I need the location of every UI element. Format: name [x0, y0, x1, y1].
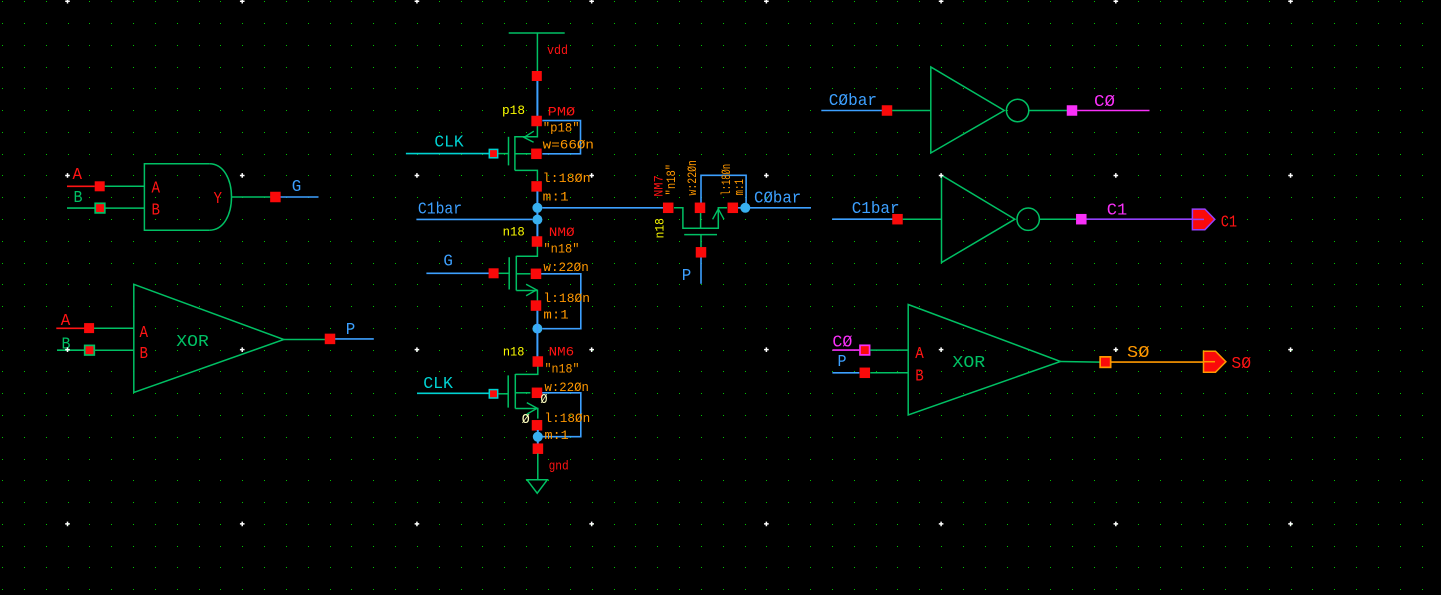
svg-text:p18: p18 — [502, 103, 525, 118]
svg-text:CLK: CLK — [423, 375, 454, 394]
svg-text:gnd: gnd — [549, 458, 569, 473]
svg-text:"n18": "n18" — [664, 164, 679, 196]
svg-text:w=66Øn: w=66Øn — [543, 138, 594, 153]
svg-text:m:1: m:1 — [543, 308, 569, 323]
svg-text:B: B — [140, 345, 149, 364]
svg-text:n18: n18 — [503, 344, 525, 359]
svg-text:P: P — [838, 353, 847, 372]
svg-text:B: B — [74, 189, 83, 208]
svg-text:B: B — [152, 201, 161, 220]
svg-text:CLK: CLK — [434, 134, 464, 153]
svg-text:"p18": "p18" — [543, 120, 580, 135]
svg-text:A: A — [140, 324, 149, 343]
svg-text:"n18": "n18" — [545, 362, 580, 377]
svg-text:SØ: SØ — [1127, 344, 1149, 363]
svg-text:A: A — [152, 180, 161, 199]
svg-text:A: A — [61, 312, 71, 331]
svg-text:A: A — [915, 345, 924, 364]
svg-text:G: G — [443, 252, 453, 271]
svg-text:B: B — [62, 335, 71, 354]
svg-text:NM6: NM6 — [549, 345, 575, 360]
svg-text:Ø: Ø — [522, 412, 530, 428]
svg-text:vdd: vdd — [547, 43, 568, 58]
svg-text:P: P — [682, 267, 692, 286]
svg-text:l:18Øn: l:18Øn — [543, 291, 590, 306]
svg-text:B: B — [915, 368, 924, 387]
svg-text:G: G — [292, 178, 302, 197]
svg-text:CØbar: CØbar — [829, 92, 877, 111]
svg-text:C1: C1 — [1107, 202, 1127, 221]
svg-text:m:1: m:1 — [543, 190, 569, 205]
svg-text:CØbar: CØbar — [754, 189, 801, 208]
svg-text:NMØ: NMØ — [549, 225, 575, 240]
svg-text:Y: Y — [214, 190, 223, 209]
svg-text:w:22Øn: w:22Øn — [543, 260, 588, 275]
svg-text:n18: n18 — [653, 218, 668, 238]
svg-text:P: P — [346, 321, 356, 340]
svg-text:l:18Øn: l:18Øn — [545, 411, 591, 426]
svg-text:w:22Øn: w:22Øn — [685, 160, 700, 195]
svg-text:m:1: m:1 — [545, 428, 569, 443]
svg-text:Ø: Ø — [541, 392, 548, 408]
svg-text:XOR: XOR — [176, 333, 209, 352]
svg-text:A: A — [73, 166, 83, 185]
svg-text:C1bar: C1bar — [418, 200, 462, 219]
svg-text:C1: C1 — [1221, 213, 1237, 232]
svg-text:XOR: XOR — [952, 354, 985, 373]
svg-text:CØ: CØ — [1094, 93, 1115, 112]
svg-text:m:1: m:1 — [732, 179, 747, 196]
svg-text:n18: n18 — [503, 224, 525, 239]
svg-text:l:18Øn: l:18Øn — [543, 171, 591, 186]
svg-text:"n18": "n18" — [543, 241, 579, 256]
svg-text:SØ: SØ — [1231, 355, 1251, 374]
svg-text:PMØ: PMØ — [548, 104, 576, 119]
svg-text:w:22Øn: w:22Øn — [545, 380, 589, 395]
